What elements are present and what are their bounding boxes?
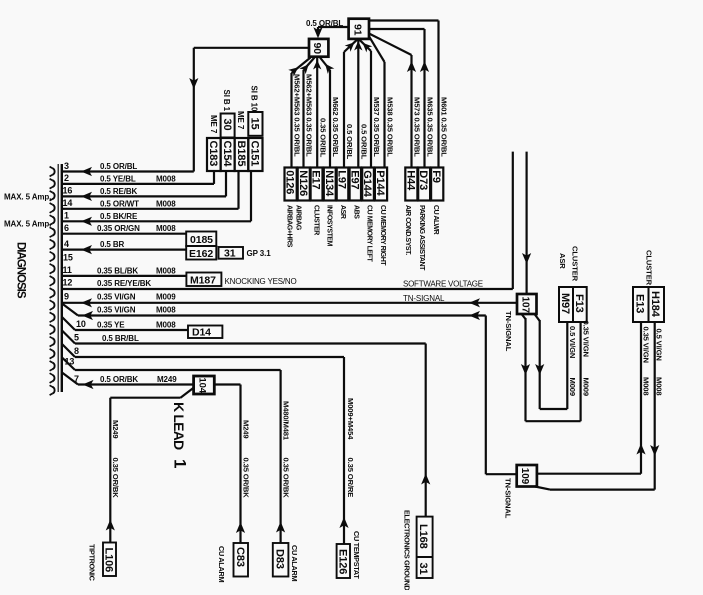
node 90	[309, 39, 328, 57]
svg-text:M249: M249	[242, 420, 251, 439]
svg-text:4: 4	[64, 239, 69, 249]
wire pin 4 0.5 BR	[62, 249, 186, 251]
svg-text:N126: N126	[297, 170, 309, 196]
svg-text:G144: G144	[361, 170, 373, 197]
wire pin 8 to E126 (M009+M454 0.35 OR/RE)	[343, 357, 345, 544]
wire pin 8 to E126	[62, 344, 75, 357]
svg-text:30: 30	[221, 119, 233, 131]
wire pin 14 0.5 OR/WT M008	[62, 208, 239, 210]
wire pin 9 0.35 VI/GN M009 - TN-SIGNAL to node 107	[62, 302, 517, 304]
svg-text:TIPTRONIC: TIPTRONIC	[88, 544, 97, 582]
svg-text:5: 5	[74, 333, 79, 343]
svg-text:8: 8	[74, 346, 79, 356]
svg-text:M009: M009	[581, 378, 590, 397]
wire pin 7 0.5 OR/BK M249 to connector 104	[62, 373, 78, 385]
svg-text:TN-SIGNAL: TN-SIGNAL	[403, 294, 445, 303]
svg-text:M008: M008	[156, 266, 176, 275]
connector E17	[311, 168, 323, 201]
svg-text:SI B 10: SI B 10	[250, 86, 259, 113]
wire pin 3 0.5 OR/BL	[62, 170, 194, 172]
svg-text:CU ALARM: CU ALARM	[217, 546, 226, 582]
svg-text:M662 0.35 OR/BL: M662 0.35 OR/BL	[331, 97, 340, 157]
svg-text:0.35 OR/BK: 0.35 OR/BK	[281, 458, 290, 499]
svg-text:107: 107	[519, 297, 530, 314]
connector DIAGNOSIS spine	[57, 164, 59, 392]
svg-text:M008: M008	[156, 199, 176, 208]
connector H44	[405, 168, 417, 201]
svg-text:0.5 OR/BL: 0.5 OR/BL	[345, 124, 354, 160]
connector C83	[234, 543, 249, 577]
svg-text:11: 11	[63, 265, 72, 275]
svg-text:M97: M97	[559, 293, 571, 314]
svg-text:M635 0.35 OR/BL: M635 0.35 OR/BL	[426, 97, 435, 157]
wire M573 0.35 OR/BL (H44 to node 91)	[410, 55, 412, 168]
svg-text:M008: M008	[156, 175, 176, 184]
wire pin 13 to D83 (M480/M481 0.35 OR/BK)	[280, 370, 282, 543]
wire pin 3 riser to node 90	[193, 48, 195, 172]
wire M537 0.35 OR/BL (G144 to node 91)	[370, 51, 372, 168]
svg-text:15: 15	[63, 253, 73, 263]
connector C151	[248, 138, 262, 171]
svg-text:TN-SIGNAL: TN-SIGNAL	[504, 311, 513, 352]
svg-text:C183: C183	[207, 141, 219, 167]
svg-text:0.5 OR/WT: 0.5 OR/WT	[100, 199, 139, 208]
svg-text:E162: E162	[189, 248, 213, 260]
svg-text:M601 0.35 OR/BL: M601 0.35 OR/BL	[440, 97, 449, 157]
svg-text:C154: C154	[221, 141, 233, 168]
svg-text:M562+M563 0.35 OR/BL: M562+M563 0.35 OR/BL	[293, 74, 302, 157]
connector L168 pin 31 ELECTRONICS GROUND	[417, 517, 433, 578]
svg-text:CU ALARM: CU ALARM	[290, 545, 299, 581]
wire 0.5 OR/BL from node 91 to node 90	[318, 26, 349, 28]
connector F9	[431, 168, 443, 201]
svg-text:GP 3.1: GP 3.1	[247, 249, 272, 258]
svg-text:CLUSTER: CLUSTER	[570, 246, 579, 282]
connector D83	[273, 543, 289, 577]
svg-text:0.5 YE/BL: 0.5 YE/BL	[100, 175, 136, 184]
wire node 109 to H184 (0.5 VI/GN)	[535, 487, 550, 490]
svg-text:E17: E17	[310, 170, 322, 189]
svg-text:SI B 1: SI B 1	[222, 90, 231, 112]
connector L97	[337, 168, 349, 201]
svg-text:0.35 VI/GN: 0.35 VI/GN	[581, 321, 590, 357]
svg-text:DIAGNOSIS: DIAGNOSIS	[15, 242, 27, 299]
wire pin 1 0.5 BK/RE	[62, 220, 251, 222]
svg-text:L106: L106	[102, 548, 114, 573]
connector 0126	[285, 168, 297, 201]
connector DIAGNOSIS pin sockets	[50, 167, 55, 396]
wire pin 10 0.35 YE M008 to D14	[62, 317, 75, 330]
svg-text:M187: M187	[190, 274, 216, 286]
connector C154	[221, 138, 235, 171]
svg-text:2: 2	[64, 173, 69, 183]
svg-text:D14: D14	[192, 327, 211, 339]
node 107	[517, 294, 537, 314]
connector N126	[298, 168, 310, 201]
svg-text:CU MEMORY RIGHT: CU MEMORY RIGHT	[379, 205, 386, 266]
connector N134	[324, 168, 336, 201]
svg-text:MAX. 5 Amp.: MAX. 5 Amp.	[4, 220, 51, 229]
connector G144	[362, 168, 374, 201]
connector E126	[337, 544, 350, 578]
connector 30	[221, 114, 235, 138]
svg-text:P144: P144	[374, 170, 386, 196]
svg-text:AIRBAG: AIRBAG	[294, 205, 301, 231]
connector C183	[207, 138, 221, 171]
svg-text:M008: M008	[156, 320, 176, 329]
svg-text:CU MEMORY LEFT: CU MEMORY LEFT	[366, 205, 373, 262]
svg-text:10: 10	[76, 319, 86, 329]
svg-text:3: 3	[64, 161, 69, 171]
wire into node 107 from top	[525, 152, 527, 294]
wire pin 11 0.35 BL/BK M008	[62, 275, 186, 277]
svg-text:E126: E126	[336, 549, 348, 574]
svg-text:M537 0.35 OR/BL: M537 0.35 OR/BL	[372, 97, 381, 157]
connector E162 pin 31 GP 3.1	[186, 246, 216, 260]
svg-text:ASR: ASR	[558, 253, 567, 269]
svg-text:0.5 OR/BL: 0.5 OR/BL	[306, 19, 343, 28]
svg-text:ASR: ASR	[339, 205, 346, 219]
wire node 107 to M97 (0.5 VI/GN)	[535, 314, 540, 321]
svg-text:B185: B185	[235, 141, 247, 167]
svg-text:ME 7: ME 7	[236, 111, 245, 130]
svg-text:0.35 VI/GN: 0.35 VI/GN	[97, 293, 136, 302]
svg-text:104: 104	[197, 378, 208, 394]
svg-text:0.35 BL/BK: 0.35 BL/BK	[97, 266, 138, 275]
svg-text:0185: 0185	[190, 234, 213, 246]
svg-text:M538 0.35 OR/BL: M538 0.35 OR/BL	[386, 97, 395, 157]
svg-text:N134: N134	[323, 170, 335, 197]
svg-text:F9: F9	[430, 170, 442, 183]
svg-text:CU TEMPSTAT: CU TEMPSTAT	[352, 531, 361, 579]
svg-text:M480/M481: M480/M481	[281, 401, 290, 441]
connector D73	[418, 168, 430, 201]
svg-text:AIR COND.SYST.: AIR COND.SYST.	[404, 205, 411, 255]
svg-text:ABS: ABS	[352, 205, 359, 219]
svg-text:0.35 OR/BK: 0.35 OR/BK	[111, 458, 120, 499]
svg-text:0.5 VI/GN: 0.5 VI/GN	[568, 326, 577, 358]
wire M635 0.35 OR/BL (D73 to node 91)	[423, 29, 425, 168]
svg-text:0.5 OR/BK: 0.5 OR/BK	[100, 375, 138, 384]
svg-text:0.35 RE/YE/BK: 0.35 RE/YE/BK	[97, 279, 151, 288]
svg-text:SOFTWARE VOLTAGE: SOFTWARE VOLTAGE	[403, 280, 483, 289]
svg-text:H184: H184	[649, 291, 661, 318]
svg-text:F13: F13	[573, 294, 585, 313]
svg-text:0.5 OR/BL: 0.5 OR/BL	[100, 162, 137, 171]
svg-text:0.35 YE: 0.35 YE	[97, 320, 125, 329]
svg-text:1: 1	[171, 459, 190, 468]
svg-text:6: 6	[64, 223, 69, 233]
svg-text:CU ALWR: CU ALWR	[432, 205, 439, 235]
svg-text:0.5 VI/GN: 0.5 VI/GN	[655, 329, 664, 361]
wire pin 13 to D83	[62, 358, 75, 371]
wire pin 2 0.5 YE/BL M008	[62, 183, 214, 185]
svg-text:90: 90	[311, 43, 323, 55]
svg-text:KNOCKING YES/NO: KNOCKING YES/NO	[225, 277, 297, 286]
svg-text:0.5 BR: 0.5 BR	[100, 240, 125, 249]
svg-text:M009: M009	[156, 293, 176, 302]
wire M538 0.35 OR/BL (P144 to node 91)	[383, 62, 385, 168]
wire pin 6 0.35 OR/GN M008	[62, 233, 186, 235]
svg-text:M008: M008	[156, 305, 176, 314]
svg-text:E97: E97	[348, 170, 360, 189]
svg-text:31: 31	[224, 248, 236, 260]
svg-text:M008: M008	[641, 377, 650, 396]
wire node 109 to E13 (0.35 VI/GN)	[537, 473, 641, 475]
svg-text:0.35 OR/BL: 0.35 OR/BL	[318, 118, 327, 158]
svg-text:AIRBAG+HRS: AIRBAG+HRS	[286, 205, 293, 248]
svg-text:1: 1	[64, 211, 69, 221]
wire pin 16 0.5 RE/BK	[62, 195, 226, 197]
svg-text:M249: M249	[111, 420, 120, 439]
svg-text:12: 12	[63, 278, 73, 288]
svg-text:16: 16	[63, 186, 73, 196]
wire SOFTWARE VOLTAGE riser	[512, 152, 514, 289]
wire 0.35 OR/BL (E17 to node 90)	[316, 58, 318, 168]
svg-text:91: 91	[351, 24, 363, 36]
wire pin 5 to L168 (electronics ground)	[425, 344, 427, 517]
svg-text:0126: 0126	[284, 170, 296, 194]
connector D14	[188, 326, 222, 339]
svg-text:M009+M454: M009+M454	[346, 398, 355, 440]
wire pin 5 0.5 BR/BL to L168	[62, 331, 75, 344]
svg-text:0.35 VI/GN: 0.35 VI/GN	[641, 327, 650, 363]
svg-text:M562+M563 0.35 OR/BL: M562+M563 0.35 OR/BL	[305, 74, 314, 157]
svg-text:H44: H44	[404, 170, 416, 191]
connector 15	[248, 112, 262, 136]
svg-text:31: 31	[417, 563, 429, 575]
svg-text:M009: M009	[568, 378, 577, 397]
svg-text:M008: M008	[655, 377, 664, 396]
wire 0.35 VI/GN M008 - TN-SIGNAL to node 109	[62, 304, 78, 316]
svg-text:M008: M008	[156, 224, 176, 233]
svg-text:0.5 BK/RE: 0.5 BK/RE	[100, 212, 138, 221]
connector M97 / F13	[559, 287, 587, 322]
svg-text:0.5 OR/BL: 0.5 OR/BL	[360, 124, 369, 160]
svg-text:CLUSTER: CLUSTER	[645, 250, 654, 286]
wire node 107 to F13 (0.35 VI/GN)	[522, 314, 526, 319]
connector L106	[103, 543, 116, 577]
svg-text:109: 109	[519, 468, 530, 485]
svg-text:E13: E13	[634, 294, 646, 313]
node 91	[349, 19, 369, 39]
svg-text:0.35 VI/GN: 0.35 VI/GN	[97, 305, 136, 314]
svg-text:9: 9	[64, 291, 69, 301]
connector E13 / H184	[633, 287, 664, 322]
svg-text:0.35 OR/RE: 0.35 OR/RE	[346, 458, 355, 498]
connector M187 KNOCKING YES/NO	[186, 273, 221, 287]
svg-text:D73: D73	[417, 170, 429, 190]
svg-text:15: 15	[249, 118, 261, 130]
svg-text:ME 7: ME 7	[209, 115, 218, 134]
svg-text:K LEAD: K LEAD	[171, 402, 187, 450]
svg-text:0.35 OR/GN: 0.35 OR/GN	[97, 224, 140, 233]
svg-text:C83: C83	[234, 547, 246, 567]
connector B185	[235, 138, 249, 171]
wire M562+M563 0.35 OR/BL (N126 to node 90)	[302, 70, 304, 168]
node 104	[194, 376, 215, 394]
svg-text:0.5 RE/BK: 0.5 RE/BK	[100, 187, 137, 196]
svg-text:14: 14	[63, 198, 73, 208]
wire 0.5 OR/BL (E97 to node 91)	[357, 39, 359, 167]
node 109	[517, 465, 537, 487]
svg-text:ELECTRONICS GROUND: ELECTRONICS GROUND	[403, 510, 412, 590]
svg-text:M573 0.35 OR/BL: M573 0.35 OR/BL	[413, 97, 422, 157]
connector P144	[375, 168, 387, 201]
svg-text:L97: L97	[336, 170, 348, 189]
svg-text:TN-SIGNAL: TN-SIGNAL	[504, 478, 513, 519]
wire 0.5 OR/BL (L97 to node 91)	[343, 52, 345, 168]
svg-text:C151: C151	[249, 141, 261, 167]
svg-text:0.35 OR/BK: 0.35 OR/BK	[242, 458, 251, 499]
svg-text:0.5 BR/BL: 0.5 BR/BL	[102, 334, 139, 343]
svg-text:CLUSTER: CLUSTER	[313, 205, 320, 235]
svg-text:MAX. 5 Amp.: MAX. 5 Amp.	[4, 192, 51, 201]
wire pin 12 0.35 RE/YE/BK - SOFTWARE VOLTAGE	[62, 288, 513, 290]
svg-text:INFOSYSTEM: INFOSYSTEM	[326, 205, 333, 247]
connector 0185	[186, 232, 216, 247]
svg-text:D83: D83	[273, 549, 285, 569]
svg-text:M249: M249	[157, 375, 177, 384]
wire node 104 to C83 (M249 0.35 OR/BK)	[214, 383, 240, 385]
wire node 104 to L106 (M249 0.35 OR/BK)	[181, 388, 194, 398]
svg-text:PARKING ASSISTANT: PARKING ASSISTANT	[418, 205, 425, 271]
wire M601 0.35 OR/BL (F9 to node 91)	[437, 21, 439, 168]
wire M562+M563 0.35 OR/BL (0126 to node 90)	[290, 73, 292, 168]
connector E97	[350, 168, 361, 201]
wire M662 0.35 OR/BL (N134 to node 90)	[329, 70, 331, 168]
svg-text:L168: L168	[417, 524, 429, 549]
